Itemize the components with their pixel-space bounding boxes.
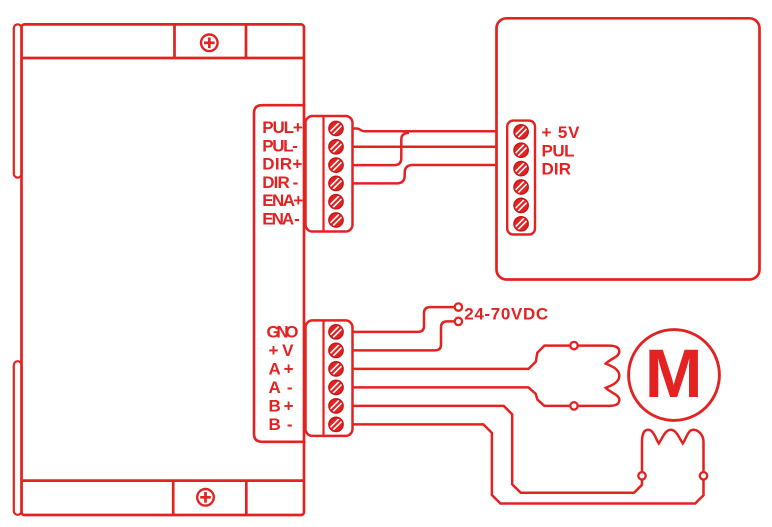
svg-text:+ V: + V xyxy=(269,341,295,360)
svg-text:PUL-: PUL- xyxy=(262,136,298,155)
svg-text:DIR: DIR xyxy=(542,160,572,179)
svg-text:ENA -: ENA - xyxy=(262,210,300,229)
svg-text:GNO: GNO xyxy=(267,322,299,341)
svg-text:DIR+: DIR+ xyxy=(262,155,302,174)
svg-text:24-70VDC: 24-70VDC xyxy=(464,304,548,323)
svg-text:M: M xyxy=(645,335,703,412)
svg-text:PUL+: PUL+ xyxy=(262,118,303,137)
svg-text:A +: A + xyxy=(269,359,294,378)
svg-text:B -: B - xyxy=(269,415,293,434)
svg-text:ENA+: ENA+ xyxy=(262,191,303,210)
svg-text:PUL: PUL xyxy=(542,141,575,160)
svg-text:A -: A - xyxy=(269,378,293,397)
svg-text:DIR -: DIR - xyxy=(262,173,298,192)
svg-text:+ 5V: + 5V xyxy=(542,123,581,142)
svg-text:B +: B + xyxy=(269,396,294,415)
